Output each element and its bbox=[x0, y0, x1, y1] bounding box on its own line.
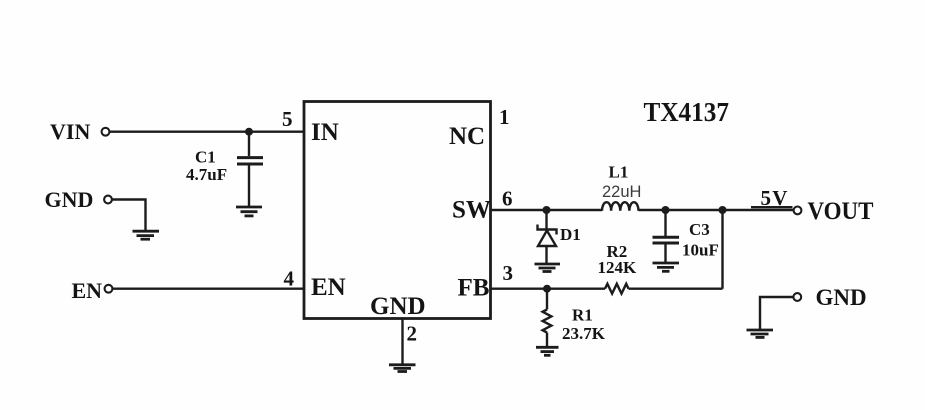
junction C3/output node bbox=[662, 206, 670, 214]
svg-text:TX4137: TX4137 bbox=[644, 97, 730, 127]
svg-text:EN: EN bbox=[311, 274, 346, 301]
pin number 5 bbox=[282, 107, 293, 131]
op-amp U1 TX4137 IC body bbox=[304, 102, 491, 319]
value label 22uH bbox=[602, 183, 641, 201]
value label C3 bbox=[689, 220, 710, 239]
svg-text:C3: C3 bbox=[689, 220, 710, 239]
wire output node down to FB net bbox=[721, 210, 723, 289]
pin number 1 bbox=[499, 105, 510, 129]
svg-text:5V: 5V bbox=[761, 186, 789, 210]
svg-text:EN: EN bbox=[72, 278, 103, 303]
svg-text:IN: IN bbox=[311, 119, 339, 146]
pin label NC bbox=[449, 123, 485, 150]
wire inductor to VOUT bbox=[639, 209, 794, 211]
wire GND pin 2 bbox=[401, 319, 403, 364]
node GND terminal (left) bbox=[104, 196, 112, 204]
value label 10uF bbox=[682, 241, 719, 260]
wire VIN to IN pin bbox=[110, 130, 304, 132]
svg-text:4: 4 bbox=[284, 267, 295, 291]
net label 5V underline bbox=[751, 206, 793, 208]
svg-text:23.7K: 23.7K bbox=[562, 324, 606, 343]
node GND terminal (right) bbox=[793, 293, 801, 301]
svg-text:3: 3 bbox=[503, 261, 514, 285]
svg-text:GND: GND bbox=[45, 187, 94, 212]
diode D1 (schottky) bbox=[538, 212, 557, 263]
resistor R2 bbox=[605, 284, 629, 294]
node EN terminal bbox=[105, 285, 113, 293]
wire EN to EN pin bbox=[113, 288, 304, 290]
inductor L1 bbox=[602, 202, 638, 211]
ground (C3) bbox=[653, 263, 680, 271]
value label C1 bbox=[195, 148, 216, 167]
svg-text:D1: D1 bbox=[560, 225, 581, 244]
pin label FB bbox=[458, 275, 490, 302]
junction D1/SW node bbox=[543, 206, 551, 214]
svg-text:NC: NC bbox=[449, 123, 485, 150]
value label 124K bbox=[598, 258, 638, 277]
node label VIN bbox=[50, 119, 90, 144]
node label GND left bbox=[45, 187, 94, 212]
ground (right GND) bbox=[747, 330, 774, 337]
junction R1/FB node bbox=[543, 285, 551, 293]
svg-text:C1: C1 bbox=[195, 148, 216, 167]
svg-text:1: 1 bbox=[499, 105, 510, 129]
value label L1 bbox=[609, 163, 629, 182]
node VIN terminal bbox=[102, 128, 110, 136]
svg-text:2: 2 bbox=[407, 322, 418, 346]
capacitor C3 bbox=[653, 212, 680, 262]
svg-text:VIN: VIN bbox=[50, 119, 90, 144]
value label D1 bbox=[560, 225, 581, 244]
svg-text:R1: R1 bbox=[572, 306, 593, 325]
pin number 2 bbox=[407, 322, 418, 346]
pin label IN bbox=[311, 119, 339, 146]
value label R2 bbox=[607, 242, 628, 261]
value label R1 bbox=[572, 306, 593, 325]
svg-text:6: 6 bbox=[502, 187, 513, 211]
svg-text:GND: GND bbox=[370, 293, 426, 320]
wire GND-right to ground bbox=[760, 297, 793, 329]
svg-text:5: 5 bbox=[282, 107, 293, 131]
svg-text:124K: 124K bbox=[598, 258, 638, 277]
pin number 3 bbox=[503, 261, 514, 285]
svg-text:SW: SW bbox=[452, 197, 491, 224]
svg-text:10uF: 10uF bbox=[682, 241, 719, 260]
ground (R1) bbox=[536, 347, 559, 355]
wire GND-left to ground bbox=[112, 200, 146, 231]
pin number 6 bbox=[502, 187, 513, 211]
node label VOUT bbox=[808, 198, 874, 225]
svg-text:FB: FB bbox=[458, 275, 490, 302]
svg-text:VOUT: VOUT bbox=[808, 198, 874, 225]
junction C1/VIN node bbox=[245, 128, 253, 136]
node label GND right bbox=[816, 285, 867, 310]
svg-text:GND: GND bbox=[816, 285, 867, 310]
resistor R1 bbox=[543, 290, 552, 346]
value label 4.7uF bbox=[186, 165, 227, 184]
part number TX4137 bbox=[644, 97, 730, 127]
ground (D1) bbox=[535, 264, 561, 272]
pin label EN bbox=[311, 274, 346, 301]
svg-text:22uH: 22uH bbox=[602, 183, 641, 201]
node label EN bbox=[72, 278, 103, 303]
ground (IC GND pin) bbox=[389, 365, 416, 372]
junction R2/output node bbox=[719, 206, 727, 214]
pin label SW bbox=[452, 197, 491, 224]
wire FB pin to R2 bbox=[491, 288, 606, 290]
net label 5V bbox=[761, 186, 789, 210]
ground (left GND) bbox=[133, 231, 160, 239]
wire R2 to output node bbox=[629, 288, 723, 290]
node VOUT terminal bbox=[794, 207, 802, 215]
capacitor C1 bbox=[237, 133, 263, 206]
ground (C1) bbox=[236, 207, 262, 216]
value label 23.7K bbox=[562, 324, 606, 343]
wire SW pin to inductor bbox=[491, 209, 603, 211]
pin label GND bbox=[370, 293, 426, 320]
svg-text:4.7uF: 4.7uF bbox=[186, 165, 227, 184]
svg-text:L1: L1 bbox=[609, 163, 629, 182]
pin number 4 bbox=[284, 267, 295, 291]
